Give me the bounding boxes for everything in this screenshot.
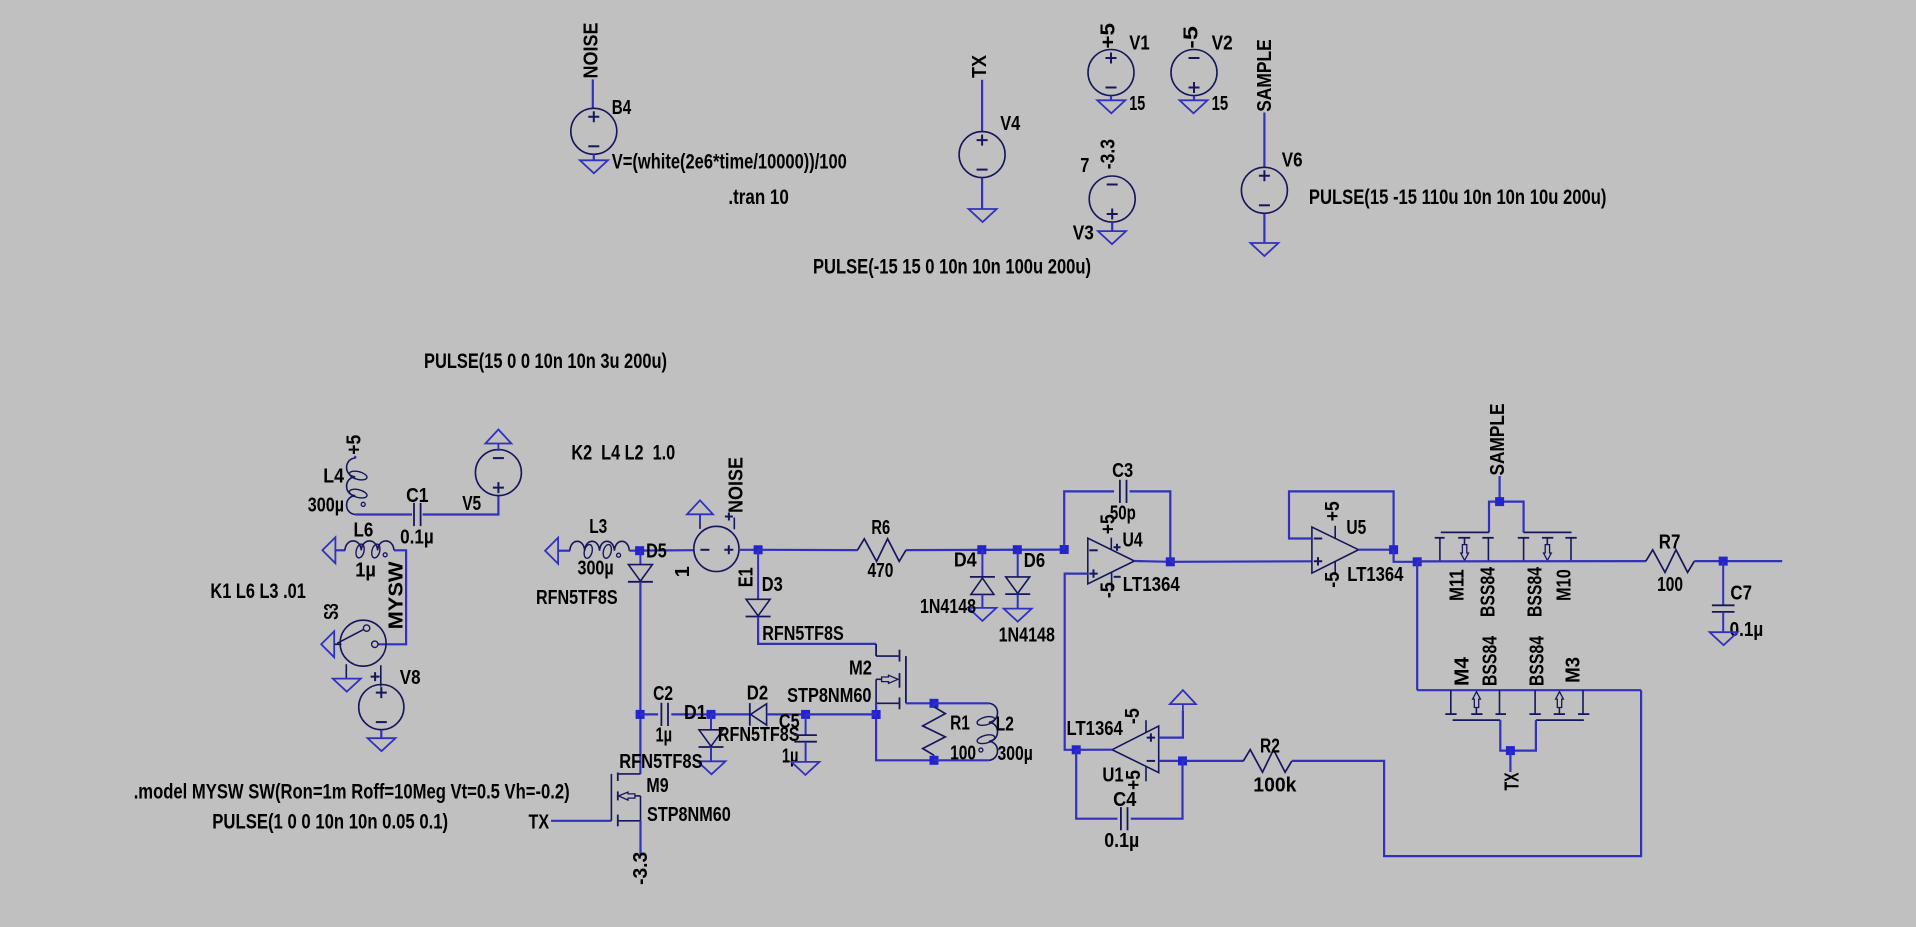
- svg-text:L2: L2: [996, 714, 1014, 736]
- svg-text:BSS84: BSS84: [1478, 566, 1500, 617]
- wire L4 to C1: [355, 513, 412, 515]
- pmos M10: [1524, 531, 1572, 533]
- svg-text:7: 7: [1080, 155, 1089, 177]
- svg-text:PULSE(15 0 0 10n 10n 3u 200u): PULSE(15 0 0 10n 10n 3u 200u): [424, 350, 667, 373]
- svg-text:BSS84: BSS84: [1525, 566, 1547, 617]
- wire V6 to ground: [1263, 214, 1265, 243]
- S3 control plus mark: [371, 672, 380, 681]
- junction at U4 inverting input: [1060, 545, 1069, 554]
- svg-text:RFN5TF8S: RFN5TF8S: [536, 587, 618, 609]
- svg-text:S3: S3: [321, 603, 343, 619]
- wire C1 to V5: [423, 496, 499, 515]
- svg-text:M10: M10: [1554, 569, 1576, 601]
- ground at V8: [368, 738, 396, 751]
- resistor R6: [858, 539, 907, 562]
- svg-text:-3.3: -3.3: [630, 852, 652, 885]
- wire gate jog M11/M10: [1489, 502, 1524, 533]
- svg-text:M11: M11: [1447, 569, 1469, 601]
- svg-text:K1 L6 L3 .01: K1 L6 L3 .01: [210, 580, 306, 603]
- ground at D4: [968, 608, 996, 621]
- wire bottom rail to L2: [934, 759, 989, 761]
- ground at L3: [545, 538, 558, 564]
- ground at V2: [1180, 100, 1208, 113]
- junction L3/D5/E1: [635, 546, 644, 555]
- wire node down to M4: [1416, 562, 1418, 690]
- voltage source V8: [359, 685, 404, 730]
- wire C5 top: [805, 714, 807, 735]
- wire M2 source to bottom rail: [876, 703, 934, 760]
- wire TX to M9 gate: [551, 820, 611, 822]
- power flag at U1 noninverting input: [1170, 690, 1196, 704]
- E1 control+ plus mark: [725, 513, 733, 521]
- wire L6 to S3: [379, 550, 407, 644]
- wire ground to L6: [335, 549, 345, 551]
- wire V1 to ground: [1110, 96, 1112, 101]
- svg-text:M2: M2: [849, 658, 872, 680]
- svg-text:LT1364: LT1364: [1347, 564, 1404, 586]
- wire D5 anode: [639, 551, 641, 565]
- svg-text:15: 15: [1129, 93, 1145, 115]
- wire R1 top to L2: [934, 702, 989, 704]
- wire U5 output jog: [1394, 550, 1418, 562]
- junction U5 output to M11/M4: [1413, 557, 1422, 566]
- svg-text:R6: R6: [871, 517, 890, 539]
- svg-text:L6: L6: [354, 520, 374, 542]
- svg-text:RFN5TF8S: RFN5TF8S: [762, 623, 843, 645]
- junction E1/D3/R6: [754, 545, 763, 554]
- svg-text:PULSE(-15 15 0 10n 10n 100u 20: PULSE(-15 15 0 10n 10n 100u 200u): [813, 256, 1091, 279]
- S3 control+ stub: [380, 665, 382, 686]
- wire E1 node to R6: [758, 549, 858, 551]
- ground at C7: [1710, 632, 1738, 645]
- ground at D1: [698, 761, 726, 774]
- wire D2 to C5: [767, 713, 806, 715]
- diode D5: [628, 565, 652, 582]
- svg-text:0.1µ: 0.1µ: [400, 526, 434, 548]
- svg-text:U1: U1: [1102, 765, 1123, 787]
- wire ground to L3: [558, 550, 570, 552]
- ground at V3: [1098, 231, 1126, 244]
- inductor L2: [989, 703, 998, 760]
- junction D1 anode: [707, 710, 716, 719]
- resistor R1: [923, 707, 946, 756]
- svg-text:-5: -5: [1322, 572, 1344, 588]
- svg-text:K2 L4 L2 1.0: K2 L4 L2 1.0: [571, 442, 675, 465]
- svg-text:LT1364: LT1364: [1123, 574, 1181, 596]
- E1 control+ stub: [733, 518, 735, 530]
- wire U5 output: [1359, 549, 1394, 551]
- voltage source V5: [475, 450, 521, 496]
- E1 control- stub: [699, 515, 701, 529]
- pmos M11: [1441, 531, 1489, 533]
- svg-text:D3: D3: [762, 574, 783, 596]
- op-amp U4: [1088, 538, 1135, 584]
- svg-text:B4: B4: [612, 97, 632, 119]
- wire TX to V4: [981, 80, 983, 132]
- svg-text:V2: V2: [1212, 32, 1233, 54]
- wire C2 to D1: [671, 713, 711, 715]
- wire node to U1 output apex: [1076, 749, 1112, 751]
- wire D1 cathode: [710, 747, 712, 762]
- wire gates to TX label: [1509, 751, 1511, 772]
- svg-text:-5: -5: [1098, 582, 1120, 598]
- svg-text:V6: V6: [1282, 149, 1303, 171]
- diode D6: [1006, 577, 1030, 594]
- capacitor C1: [413, 503, 415, 526]
- svg-text:1µ: 1µ: [782, 746, 799, 768]
- svg-text:M9: M9: [646, 775, 668, 797]
- diode D1: [699, 730, 723, 747]
- svg-text:1: 1: [672, 566, 694, 577]
- svg-text:1µ: 1µ: [355, 559, 376, 581]
- wire D3 anode: [757, 550, 759, 600]
- wire R6 to U4 input: [906, 548, 1064, 551]
- svg-text:C5: C5: [779, 711, 800, 733]
- svg-text:TX: TX: [1502, 772, 1524, 790]
- svg-text:BSS84: BSS84: [1527, 635, 1549, 686]
- voltage source V2: [1171, 50, 1217, 96]
- wire V4 to ground: [981, 178, 983, 209]
- svg-text:D1: D1: [684, 702, 707, 724]
- wire U1 - input to output node: [1159, 760, 1183, 762]
- wire M4/M3 gate tie: [1500, 720, 1536, 751]
- svg-text:C1: C1: [406, 485, 428, 507]
- junction R1 top: [930, 699, 939, 708]
- voltage source V6: [1241, 167, 1287, 213]
- ground at L6: [322, 537, 335, 563]
- junction R1 bottom: [930, 756, 939, 765]
- svg-text:D6: D6: [1024, 550, 1045, 572]
- svg-text:.model MYSW SW(Ron=1m Roff=10M: .model MYSW SW(Ron=1m Roff=10Meg Vt=0.5 …: [134, 780, 570, 803]
- pmos M4: [1445, 713, 1456, 715]
- svg-text:E1: E1: [735, 567, 757, 587]
- svg-text:RFN5TF8S: RFN5TF8S: [619, 751, 702, 773]
- svg-text:C4: C4: [1113, 789, 1137, 811]
- wire U4 output: [1134, 560, 1170, 563]
- svg-text:C2: C2: [653, 683, 673, 705]
- wire D3 cathode to M2 drain: [758, 617, 876, 644]
- wire R2 to bottom-right loop: [1292, 690, 1641, 856]
- svg-text:.tran 10: .tran 10: [728, 186, 788, 209]
- wire C4 loop right: [1131, 761, 1183, 819]
- wire U1 output to R2: [1183, 760, 1244, 762]
- wire M11/M10 source-drain rail to R7: [1417, 560, 1646, 563]
- svg-text:R7: R7: [1659, 532, 1681, 554]
- junction M2 source / C5 row: [872, 710, 881, 719]
- svg-text:0.1µ: 0.1µ: [1104, 830, 1139, 852]
- voltage source V4: [959, 132, 1005, 178]
- voltage source V3: [1089, 176, 1135, 222]
- svg-text:SAMPLE: SAMPLE: [1487, 404, 1509, 476]
- svg-text:V8: V8: [400, 667, 421, 689]
- wire U4 noninverting input down to U1: [1065, 574, 1088, 750]
- svg-text:LT1364: LT1364: [1067, 718, 1124, 740]
- nmos M2: [875, 644, 877, 656]
- svg-text:BSS84: BSS84: [1480, 635, 1502, 686]
- S3 control- stub: [345, 664, 347, 678]
- wire C5 node to M2: [806, 713, 877, 715]
- wire C7 top: [1722, 561, 1724, 606]
- svg-text:L4: L4: [323, 465, 344, 487]
- resistor R2: [1243, 750, 1292, 773]
- svg-text:V=(white(2e6*time/10000))/100: V=(white(2e6*time/10000))/100: [612, 151, 847, 174]
- svg-text:100: 100: [1657, 574, 1683, 596]
- junction C5 top: [801, 710, 810, 719]
- wire M4/M3 top rail: [1417, 689, 1641, 691]
- wire L3 to E1: [629, 549, 694, 552]
- wire V8 to ground: [380, 730, 382, 739]
- wire NOISE to B4: [592, 79, 594, 108]
- wire flag to U1 + input: [1159, 711, 1183, 738]
- ground at V4: [969, 209, 997, 222]
- junction U4 output: [1166, 557, 1175, 566]
- ground at B4: [580, 160, 608, 173]
- svg-text:+5: +5: [1098, 23, 1120, 49]
- junction U1 output: [1178, 756, 1187, 765]
- svg-text:50p: 50p: [1110, 503, 1136, 525]
- wire E1 to node: [739, 549, 758, 551]
- vcvs E1: [694, 526, 739, 571]
- wire R1 bottom lead: [933, 755, 935, 760]
- capacitor C5: [794, 734, 817, 736]
- capacitor C3: [1119, 480, 1121, 503]
- voltage source V1: [1088, 50, 1134, 96]
- wire C4 loop left: [1076, 750, 1117, 819]
- svg-text:D2: D2: [747, 683, 768, 705]
- wire R1 top lead: [933, 703, 935, 707]
- svg-text:C3: C3: [1112, 460, 1133, 482]
- op-amp U1 (mirrored): [1112, 726, 1159, 773]
- svg-text:-3.3: -3.3: [1097, 139, 1119, 169]
- wire D4 cathode: [981, 550, 983, 577]
- svg-text:V5: V5: [462, 493, 481, 515]
- ground at D6: [1004, 609, 1032, 622]
- wire C3 to U4 output: [1130, 491, 1171, 561]
- wire V3 to ground: [1111, 222, 1113, 231]
- wire D5 cathode down to M9 drain: [639, 582, 641, 774]
- ground at V6: [1250, 243, 1278, 256]
- inductor L3: [570, 541, 630, 550]
- svg-text:D4: D4: [954, 550, 977, 572]
- wire U4 feedback left/top: [1064, 491, 1114, 549]
- pmos M3: [1529, 713, 1540, 715]
- svg-text:L3: L3: [589, 516, 607, 538]
- wire SAMPLE to V6: [1263, 113, 1265, 167]
- svg-text:300µ: 300µ: [308, 495, 344, 517]
- svg-text:+5: +5: [1123, 770, 1145, 790]
- svg-text:MYSW: MYSW: [386, 561, 408, 629]
- wire D6 anode: [1017, 550, 1019, 577]
- svg-text:300µ: 300µ: [998, 743, 1033, 765]
- svg-text:PULSE(1 0 0 10n 10n 0.05 0.1): PULSE(1 0 0 10n 10n 0.05 0.1): [212, 810, 448, 833]
- junction U1 input: [1072, 745, 1081, 754]
- switch S3: [340, 620, 386, 666]
- svg-text:470: 470: [868, 560, 894, 582]
- svg-text:-5: -5: [1181, 26, 1203, 49]
- power flag at E1 control-: [687, 500, 713, 514]
- wire D1 node to D2: [711, 713, 750, 715]
- wire R7 to output stub: [1694, 560, 1782, 562]
- junction at D4: [977, 545, 986, 554]
- junction U5 output: [1389, 545, 1398, 554]
- power flag above V5: [485, 430, 511, 444]
- svg-text:C7: C7: [1730, 582, 1752, 604]
- junction SAMPLE gates: [1495, 497, 1504, 506]
- resistor R7: [1646, 550, 1695, 573]
- wire M9 source to -3.3: [639, 821, 641, 856]
- svg-text:TX: TX: [529, 812, 550, 834]
- wire node to C2: [640, 713, 658, 715]
- inductor L6: [345, 541, 394, 550]
- svg-text:SAMPLE: SAMPLE: [1254, 39, 1276, 112]
- svg-text:300µ: 300µ: [578, 558, 614, 580]
- svg-text:PULSE(15 -15 110u 10n 10n 10u: PULSE(15 -15 110u 10n 10n 10u 200u): [1309, 186, 1607, 209]
- wire M2 gate to R1 top: [906, 702, 934, 704]
- inductor L4: [347, 458, 356, 515]
- bsource B4: [571, 108, 617, 154]
- diode D2: [749, 703, 751, 726]
- ground at S3 control: [333, 679, 361, 692]
- wire U4 output to U5 noninverting input: [1170, 560, 1312, 563]
- svg-text:1µ: 1µ: [656, 725, 673, 747]
- svg-text:1N4148: 1N4148: [999, 625, 1055, 647]
- svg-text:M3: M3: [1563, 657, 1585, 683]
- wire V2 to ground: [1193, 96, 1195, 101]
- svg-text:U4: U4: [1123, 529, 1144, 551]
- ground at S3 left: [321, 631, 334, 657]
- junction TX gates: [1506, 746, 1515, 755]
- wire C5 bottom: [805, 742, 807, 762]
- wire U5 feedback loop: [1289, 491, 1394, 549]
- svg-text:V4: V4: [1000, 113, 1021, 135]
- wire +5 to L4: [354, 456, 356, 459]
- capacitor C2: [660, 703, 662, 726]
- op-amp U5: [1312, 527, 1359, 573]
- svg-text:R2: R2: [1260, 736, 1280, 758]
- ground at V1: [1097, 100, 1125, 113]
- junction at D6: [1013, 545, 1022, 554]
- svg-text:STP8NM60: STP8NM60: [787, 685, 871, 707]
- capacitor C4: [1120, 807, 1122, 830]
- svg-text:TX: TX: [969, 54, 991, 78]
- svg-text:+5: +5: [1322, 501, 1344, 521]
- wire D6 cathode: [1017, 594, 1019, 609]
- diode D3: [746, 599, 770, 616]
- svg-text:0.1µ: 0.1µ: [1730, 619, 1764, 641]
- svg-text:V1: V1: [1129, 32, 1150, 54]
- nmos M9: [610, 774, 612, 821]
- svg-text:NOISE: NOISE: [726, 457, 748, 513]
- diode D4: [970, 576, 995, 578]
- svg-text:NOISE: NOISE: [581, 23, 603, 79]
- wire B4 to ground: [593, 154, 595, 160]
- svg-text:M4: M4: [1452, 656, 1474, 686]
- svg-text:V3: V3: [1073, 223, 1094, 245]
- wire D1 anode: [710, 714, 712, 730]
- capacitor C7: [1712, 604, 1735, 606]
- svg-text:100k: 100k: [1253, 775, 1297, 797]
- svg-text:STP8NM60: STP8NM60: [647, 804, 731, 826]
- svg-text:R1: R1: [950, 713, 970, 735]
- wire C7 bottom: [1722, 612, 1724, 633]
- svg-text:1N4148: 1N4148: [920, 596, 976, 618]
- svg-text:+5: +5: [343, 435, 365, 455]
- junction C2 left: [636, 710, 645, 719]
- svg-text:D5: D5: [646, 541, 667, 563]
- wire D4 anode: [981, 595, 983, 609]
- ground at C5: [791, 762, 819, 775]
- svg-text:15: 15: [1212, 93, 1229, 115]
- svg-text:U5: U5: [1346, 517, 1366, 539]
- svg-text:-5: -5: [1122, 708, 1144, 724]
- junction C7 top: [1719, 557, 1728, 566]
- wire SAMPLE down: [1498, 476, 1500, 502]
